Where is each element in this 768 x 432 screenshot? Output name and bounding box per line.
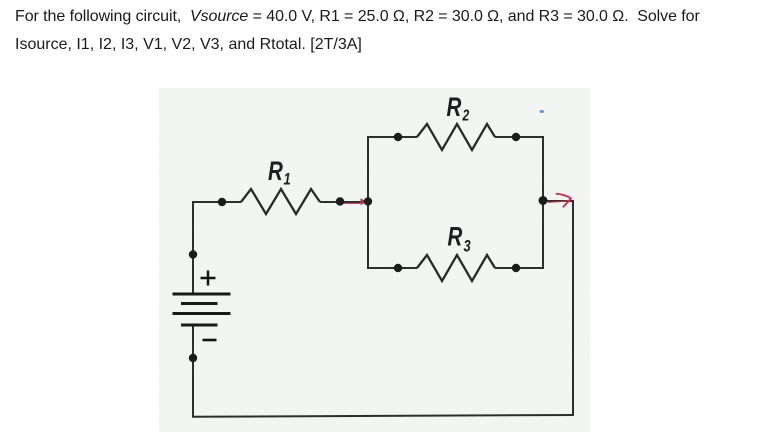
label R2 <box>447 92 470 124</box>
junction dot: battery bottom <box>189 354 197 362</box>
resistor R2 <box>417 124 495 150</box>
wire: parallel box left vertical <box>367 137 369 268</box>
junction dot: R3 right <box>512 264 520 272</box>
junction dot: R2 left <box>394 133 402 141</box>
svg-text:2: 2 <box>462 107 470 125</box>
junction dot: R1 right <box>336 197 344 205</box>
svg-text:R: R <box>447 92 462 122</box>
wire: R3 branch left <box>367 267 417 269</box>
wire: R3 branch right <box>495 267 544 269</box>
wire: node B stub to right rail <box>543 200 573 202</box>
junction dot: R1 left <box>218 198 226 206</box>
svg-text:1: 1 <box>284 170 291 189</box>
problem statement line 1 <box>15 9 700 25</box>
junction dot: node B <box>539 196 548 205</box>
resistor R3 <box>417 255 495 281</box>
battery Vsource plate short upper <box>181 302 218 305</box>
wire: R2 branch left <box>367 136 417 138</box>
battery Vsource plate long lower <box>173 312 231 315</box>
junction dot: battery top <box>189 250 197 258</box>
wire: R2 branch right <box>495 136 544 138</box>
wire: right rail vertical <box>572 200 574 415</box>
svg-text:R: R <box>268 156 283 186</box>
wire: parallel box right vertical <box>542 136 544 269</box>
junction dot: node A <box>364 197 372 205</box>
resistor R1 <box>241 189 320 214</box>
svg-text:R: R <box>448 222 463 252</box>
battery polarity + <box>201 271 216 286</box>
junction dot: R2 right <box>512 133 520 141</box>
battery Vsource plate short bottom <box>181 324 218 327</box>
red annotation arrow at node B <box>548 194 571 207</box>
red annotation arrow at node A <box>342 198 367 205</box>
wire: bottom return <box>192 415 574 417</box>
blue speck mark <box>540 110 544 113</box>
wire: left vertical (battery branch bottom) <box>192 325 194 418</box>
junction dot: R3 left <box>394 264 402 272</box>
wire: left vertical (battery branch top) <box>192 203 194 294</box>
problem statement line 2 <box>15 37 362 53</box>
wire: R1 to node A <box>320 201 368 203</box>
wire: top horizontal to R1 <box>192 201 241 203</box>
svg-text:3: 3 <box>464 237 472 256</box>
label R1 <box>268 156 291 189</box>
battery Vsource plate long top <box>173 293 231 296</box>
label R3 <box>448 222 472 256</box>
battery polarity - <box>203 339 217 342</box>
scanned photo background <box>159 88 590 432</box>
